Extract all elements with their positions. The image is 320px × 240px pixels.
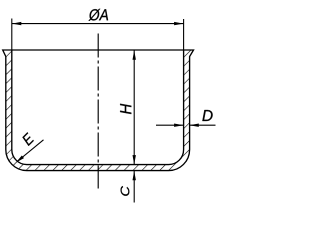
label H [120,104,131,114]
extension line right [183,19,185,50]
arrow OA right [174,22,184,25]
label OA [89,9,109,21]
arrow OA left [12,22,21,25]
label E [21,132,35,146]
dimension line C [133,171,135,203]
leader line E [17,140,43,162]
arrow D left [174,124,184,127]
arrow D right [189,124,199,127]
label C [121,186,130,196]
dimension line OA [12,23,184,25]
arrow H down [133,155,136,165]
label D [202,110,212,121]
dimension line H [133,50,135,164]
arrow C up [133,171,136,181]
arrow E [16,155,24,162]
dimension line D right [189,124,215,126]
arrow H up [133,50,136,60]
extension line left [11,19,13,51]
crucible section walls (hatched ring) [3,50,194,171]
dimension line D left [156,124,184,126]
centerline [97,34,99,189]
